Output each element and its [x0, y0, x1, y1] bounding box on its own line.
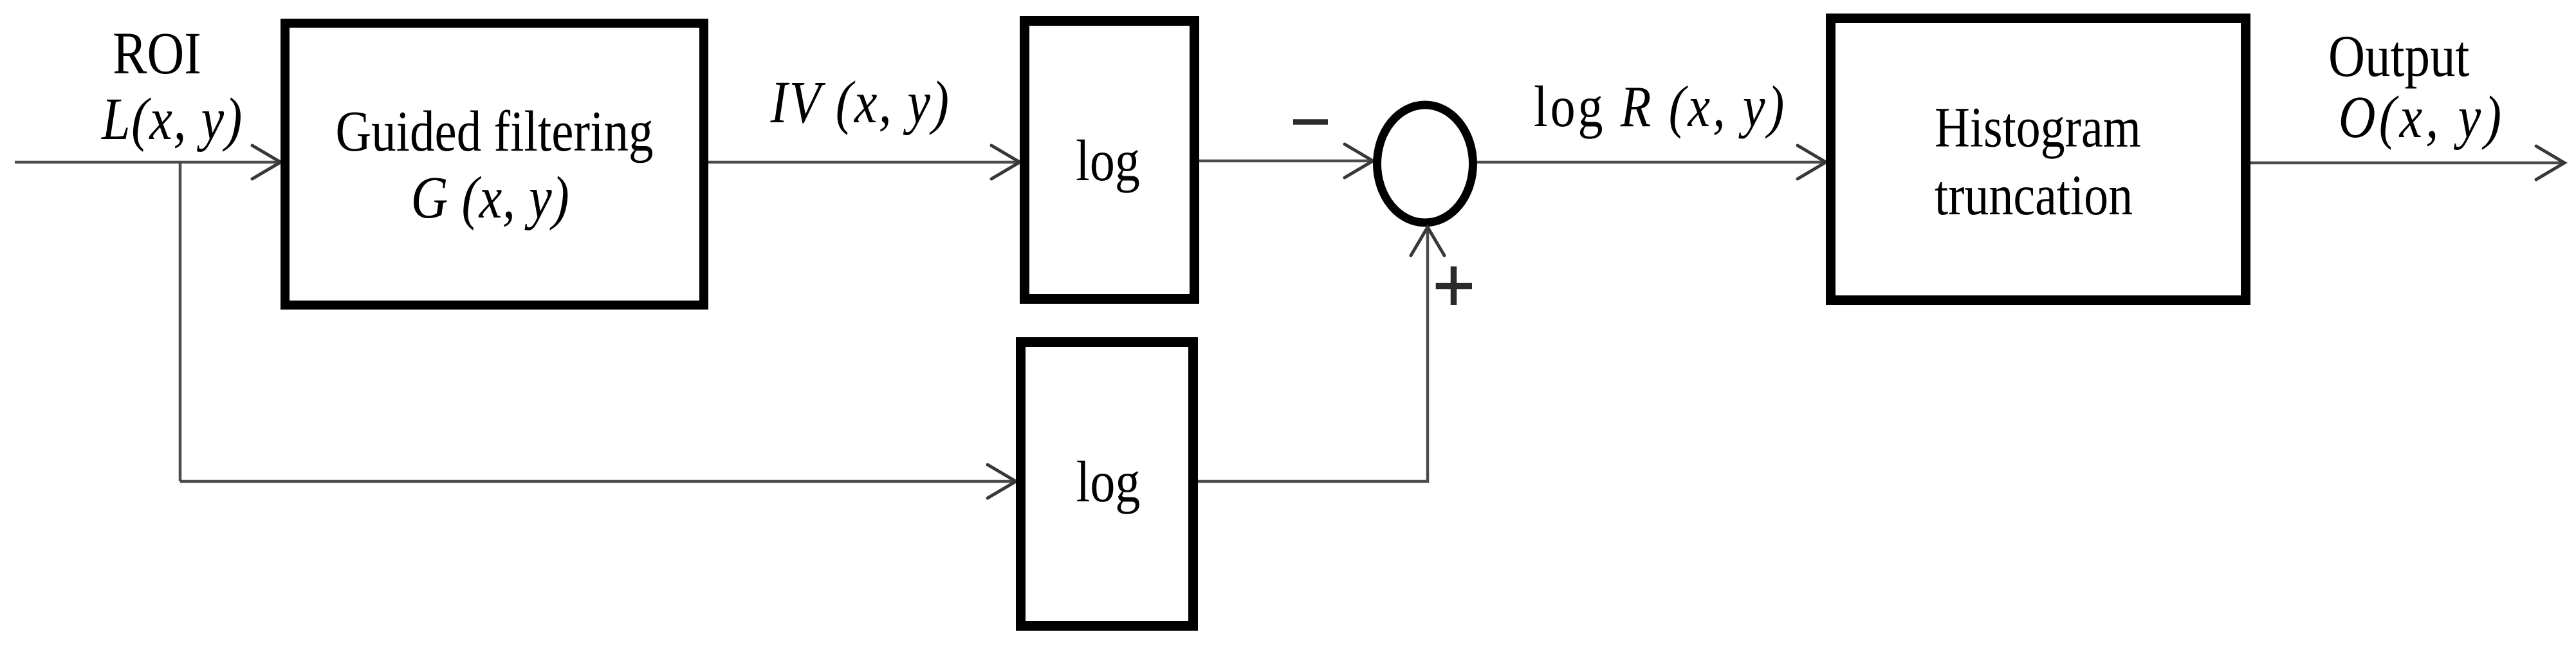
- box lower log: [1021, 342, 1193, 626]
- wire summing junction to Histogram truncation: [1477, 161, 1823, 164]
- summing junction circle: [1377, 105, 1473, 223]
- svg-text:Guided filtering: Guided filtering: [336, 99, 654, 163]
- wire branch horizontal to lower log: [180, 480, 1013, 483]
- svg-text:Histogram: Histogram: [1935, 95, 2141, 159]
- svg-text:IV (x, y): IV (x, y): [770, 68, 951, 135]
- wire output: [2250, 162, 2562, 165]
- box Histogram truncation: [1831, 19, 2246, 301]
- svg-text:truncation: truncation: [1935, 163, 2133, 227]
- svg-text:O(x, y): O(x, y): [2339, 83, 2505, 150]
- arrowhead into summing junction (bottom): [1411, 227, 1444, 255]
- svg-text:log: log: [1076, 128, 1140, 193]
- arrowhead into lower log: [988, 465, 1016, 498]
- arrowhead into Guided filtering: [252, 145, 281, 179]
- arrowhead into upper log: [991, 145, 1020, 179]
- wire upper log to summing junction: [1199, 160, 1370, 163]
- svg-text:log: log: [1076, 449, 1141, 514]
- svg-text:L(x, y): L(x, y): [100, 85, 243, 152]
- label minus sign: [1293, 119, 1328, 125]
- label plus sign: [1436, 266, 1472, 305]
- svg-text:ROI: ROI: [113, 19, 201, 86]
- wire Guided filtering to upper log: [708, 161, 1017, 164]
- box upper log: [1025, 21, 1195, 299]
- arrowhead output end: [2536, 146, 2564, 180]
- box Guided filtering: [285, 23, 704, 305]
- wire input L(x,y): [15, 161, 278, 164]
- arrowhead into summing junction (left): [1345, 144, 1373, 178]
- arrowhead into Histogram truncation: [1798, 145, 1826, 179]
- svg-text:log R (x, y): log R (x, y): [1534, 74, 1787, 139]
- wire lower log to summing junction (right then up): [1198, 228, 1428, 481]
- svg-text:G (x, y): G (x, y): [411, 163, 570, 230]
- svg-text:Output: Output: [2328, 23, 2470, 89]
- wire branch vertical: [179, 162, 182, 481]
